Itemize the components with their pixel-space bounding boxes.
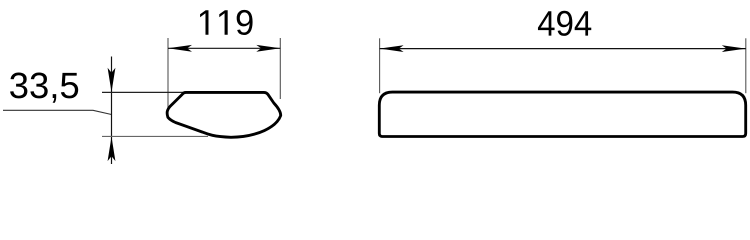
dimension text 494 <box>538 11 591 36</box>
dimension text 119 <box>200 10 253 35</box>
vertical dimension line 33,5 <box>111 57 113 165</box>
luminaire front view body <box>379 92 745 136</box>
arrowhead left of 119 <box>168 45 192 52</box>
extension line left of 119 <box>167 38 169 109</box>
dimension line 494 <box>380 48 746 50</box>
dimension line 119 <box>168 47 280 49</box>
extension line right of 494 <box>745 38 747 93</box>
extension line top of 33,5 <box>102 91 186 93</box>
extension line right of 119 <box>279 38 281 99</box>
arrowhead right of 119 <box>256 45 280 52</box>
leader line from 33,5 <box>3 110 112 114</box>
dimension text 33,5 <box>10 73 78 103</box>
extension line left of 494 <box>379 38 381 93</box>
luminaire cross-section profile <box>167 92 281 137</box>
arrowhead bottom of 33,5 (pointing up) <box>108 137 116 162</box>
arrowhead left of 494 <box>380 45 404 52</box>
arrowhead top of 33,5 (pointing down) <box>108 68 116 93</box>
extension line bottom of 33,5 <box>102 135 208 137</box>
arrowhead right of 494 <box>722 45 746 52</box>
